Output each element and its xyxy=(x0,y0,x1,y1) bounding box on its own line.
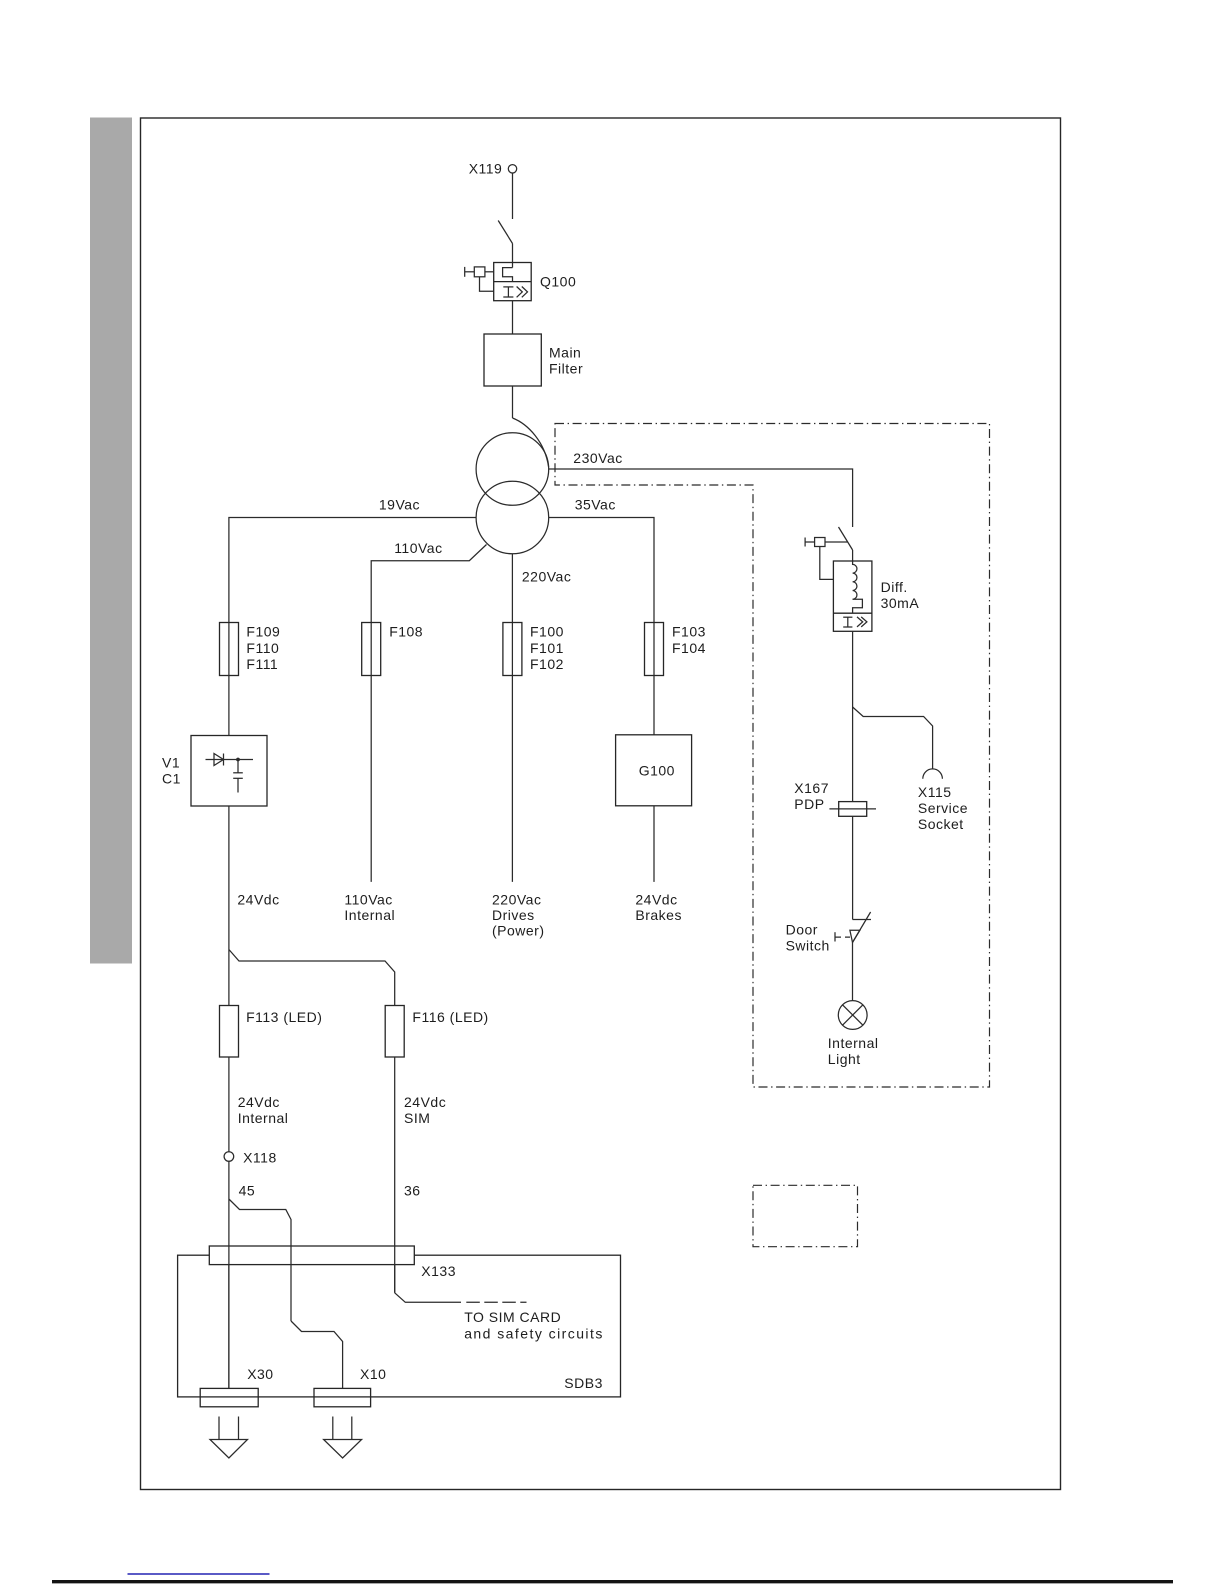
capacitor C1 xyxy=(233,760,243,793)
box SDB3 xyxy=(178,1255,621,1397)
wire col1 through bar to X30 xyxy=(228,1246,230,1388)
svg-text:Socket: Socket xyxy=(918,816,964,832)
svg-text:Main: Main xyxy=(549,345,581,361)
svg-text:F102: F102 xyxy=(530,656,564,672)
svg-text:230Vac: 230Vac xyxy=(573,450,622,466)
door switch blade xyxy=(853,912,871,942)
svg-text:220Vac: 220Vac xyxy=(492,891,541,907)
svg-text:24Vdc: 24Vdc xyxy=(635,891,677,907)
wire to SIM card xyxy=(395,1293,461,1303)
wire branch 45 to X10 column xyxy=(229,1199,291,1246)
power supply G100 box xyxy=(616,735,692,806)
wire 110Vac xyxy=(371,545,486,623)
svg-text:Diff.: Diff. xyxy=(881,579,908,595)
Q100 aux tick xyxy=(464,267,466,277)
wire branch to F116 xyxy=(229,950,395,1006)
wire Main Filter to transformer xyxy=(512,386,514,418)
wire F113 down to X118 xyxy=(228,1057,230,1152)
wire F116 down through bus xyxy=(394,1057,396,1293)
wire 35Vac xyxy=(549,518,654,623)
wire F116 through bar xyxy=(394,1246,396,1293)
transformer T1 secondary xyxy=(476,481,549,554)
svg-text:Brakes: Brakes xyxy=(635,907,682,923)
wire X119 to Q100 switch xyxy=(512,173,514,219)
svg-text:TO SIM CARD: TO SIM CARD xyxy=(464,1309,561,1325)
svg-text:C1: C1 xyxy=(162,770,181,786)
diode V1 xyxy=(206,754,254,766)
svg-text:Internal: Internal xyxy=(238,1110,289,1126)
wire G100 down xyxy=(653,806,655,882)
svg-text:V1: V1 xyxy=(162,755,180,771)
svg-text:F108: F108 xyxy=(389,624,423,640)
Diff switch blade xyxy=(839,527,853,550)
wire blade to Diff box xyxy=(852,550,854,561)
wire jog to X10 xyxy=(291,1321,343,1388)
wire F109 to V1C1 xyxy=(228,676,230,736)
svg-text:Service: Service xyxy=(918,800,968,816)
wire col2 110Vac internal xyxy=(370,676,372,882)
svg-text:SIM: SIM xyxy=(404,1110,430,1126)
door switch actuator tick xyxy=(834,932,836,941)
fuse F116 (LED) xyxy=(385,1006,404,1058)
svg-text:45: 45 xyxy=(239,1183,256,1199)
svg-text:30mA: 30mA xyxy=(881,595,920,611)
svg-text:SDB3: SDB3 xyxy=(564,1375,603,1391)
connector X167 PDP box xyxy=(839,802,867,817)
svg-text:X30: X30 xyxy=(247,1366,273,1382)
door switch roller triangle xyxy=(850,930,860,942)
wire X167 to door switch xyxy=(852,816,854,919)
connector X30 xyxy=(200,1388,258,1406)
wire branch to X115 xyxy=(853,707,933,769)
Q100 thermal overload hook xyxy=(503,268,513,282)
wire square to Q100 box xyxy=(485,271,494,273)
svg-text:F113 (LED): F113 (LED) xyxy=(246,1009,322,1025)
wire to X167 xyxy=(852,707,854,802)
Diff thermal step xyxy=(853,599,863,613)
wire 45 branch through bar xyxy=(290,1246,292,1321)
wire aux square bottom to Diff box xyxy=(820,547,834,580)
svg-text:Internal: Internal xyxy=(344,907,395,923)
svg-text:(Power): (Power) xyxy=(492,922,545,938)
Q100 magnetic trip symbol I>> xyxy=(503,287,527,298)
svg-text:X118: X118 xyxy=(243,1149,277,1165)
wire door switch to lamp xyxy=(852,942,854,1000)
svg-text:Door: Door xyxy=(786,922,818,938)
svg-text:Light: Light xyxy=(828,1051,861,1067)
fuse F103/F104 xyxy=(653,623,655,676)
wire Q100 to Main Filter xyxy=(512,301,514,334)
svg-text:Switch: Switch xyxy=(786,938,830,954)
Diff aux tick xyxy=(804,538,806,547)
wire 19Vac xyxy=(229,518,476,623)
wire tick to aux square xyxy=(805,541,815,543)
wire V1C1 down xyxy=(228,806,230,1006)
wire Diff to branch xyxy=(852,631,854,707)
fuse F100/F101/F102 xyxy=(511,623,513,676)
connector X10 xyxy=(314,1388,371,1406)
lamp Internal Light xyxy=(838,1001,867,1030)
svg-text:Drives: Drives xyxy=(492,907,535,923)
Main Filter box xyxy=(484,334,541,386)
bus bar X133 xyxy=(209,1246,414,1265)
svg-text:Filter: Filter xyxy=(549,360,583,376)
svg-text:F116 (LED): F116 (LED) xyxy=(412,1009,488,1025)
Diff aux square xyxy=(815,538,825,547)
svg-text:Internal: Internal xyxy=(828,1035,879,1051)
page frame xyxy=(141,118,1061,1490)
wire F103 to G100 xyxy=(653,676,655,735)
fuse F108 xyxy=(370,623,372,676)
svg-text:and safety circuits: and safety circuits xyxy=(464,1326,604,1342)
wire tick to square xyxy=(465,271,475,273)
svg-text:F111: F111 xyxy=(246,656,278,672)
Diff magnetic trip symbol I>> xyxy=(843,617,867,627)
wire curved primary tap xyxy=(513,418,549,467)
svg-text:G100: G100 xyxy=(639,763,675,779)
dashed wire to SIM card xyxy=(466,1301,526,1303)
svg-text:F109: F109 xyxy=(246,624,280,640)
Diff coil xyxy=(853,561,857,599)
svg-text:X133: X133 xyxy=(421,1263,456,1279)
fuse F109/F110/F111 xyxy=(228,623,230,676)
wire square bottom to Q100 magnetic section xyxy=(480,277,494,291)
svg-text:F103: F103 xyxy=(672,624,706,640)
rectifier V1 C1 box xyxy=(191,736,267,807)
door switch dashed link xyxy=(835,936,850,938)
svg-text:110Vac: 110Vac xyxy=(344,891,392,907)
svg-text:X115: X115 xyxy=(918,784,952,800)
socket X115 arc xyxy=(923,769,943,779)
Q100 switch blade xyxy=(498,221,512,244)
svg-text:X167: X167 xyxy=(794,780,829,796)
arrow under X30 xyxy=(210,1417,248,1459)
Q100 auxiliary contact square xyxy=(474,267,485,277)
wire 230Vac xyxy=(549,469,853,527)
dash-dot enclosure right zone xyxy=(555,424,990,1088)
arrow under X10 xyxy=(324,1417,362,1459)
svg-text:F104: F104 xyxy=(672,640,706,656)
connector X167 PDP line xyxy=(829,808,876,810)
svg-text:24Vdc: 24Vdc xyxy=(238,1094,280,1110)
breaker Q100 box xyxy=(494,263,532,301)
svg-text:24Vdc: 24Vdc xyxy=(237,891,279,907)
connector X119 terminal circle xyxy=(508,165,516,173)
svg-text:35Vac: 35Vac xyxy=(575,497,616,513)
svg-text:Q100: Q100 xyxy=(540,274,576,290)
svg-text:36: 36 xyxy=(404,1183,421,1199)
svg-text:110Vac: 110Vac xyxy=(394,540,442,556)
svg-text:PDP: PDP xyxy=(794,796,824,812)
svg-text:F101: F101 xyxy=(530,640,564,656)
wire aux square to blade xyxy=(825,541,848,543)
svg-text:F100: F100 xyxy=(530,624,564,640)
svg-text:X119: X119 xyxy=(469,161,503,177)
footer black rule xyxy=(52,1580,1173,1583)
dash-dot small box xyxy=(753,1185,858,1246)
node junction dot xyxy=(236,758,240,762)
door switch stub xyxy=(853,919,871,921)
fuse F113 (LED) xyxy=(220,1006,239,1058)
wire switch to Q100 thermal element xyxy=(512,244,514,268)
svg-text:X10: X10 xyxy=(360,1366,386,1382)
wire col3 220Vac drives xyxy=(511,676,513,882)
svg-text:F110: F110 xyxy=(246,640,279,656)
wire 220Vac xyxy=(511,554,513,623)
svg-text:24Vdc: 24Vdc xyxy=(404,1094,446,1110)
svg-text:220Vac: 220Vac xyxy=(522,569,571,585)
node X118 circle xyxy=(224,1152,234,1162)
breaker Diff box xyxy=(833,561,872,631)
wire X118 to bus xyxy=(228,1161,230,1388)
transformer T1 primary xyxy=(476,433,549,506)
gray sidebar xyxy=(90,118,132,964)
footer blue rule xyxy=(128,1573,270,1575)
svg-text:19Vac: 19Vac xyxy=(379,497,420,513)
